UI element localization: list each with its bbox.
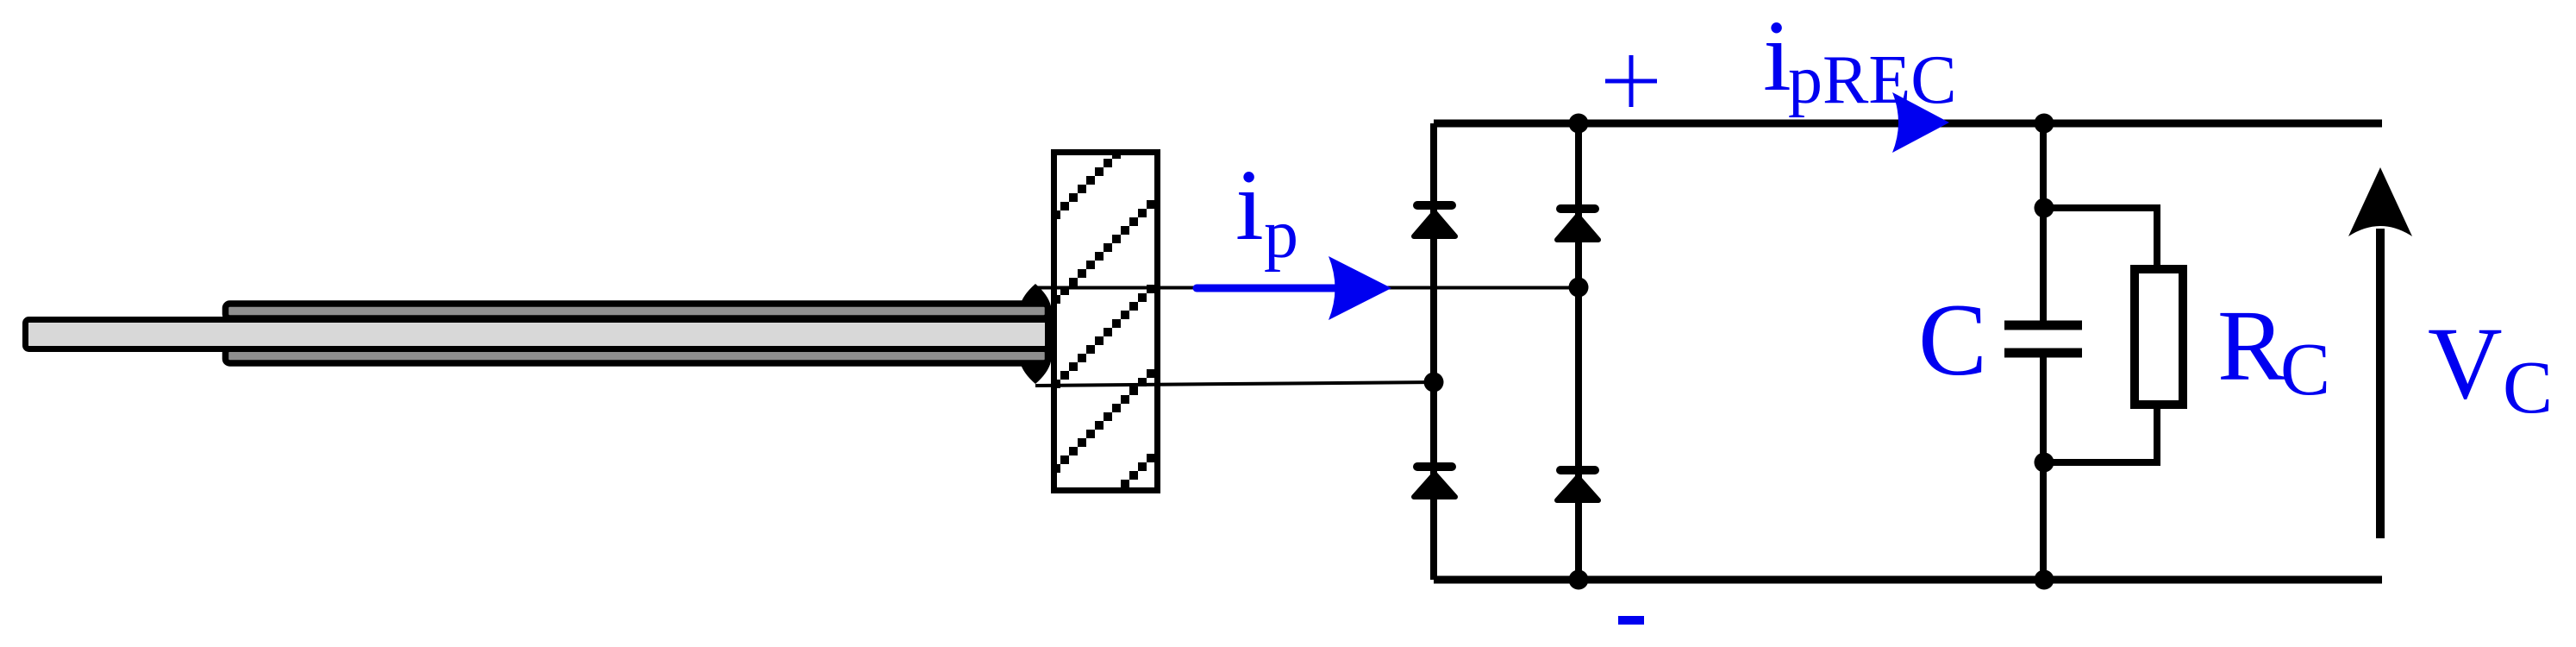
svg-text:C: C bbox=[2503, 345, 2553, 429]
svg-text:R: R bbox=[2217, 289, 2285, 402]
clamp block bbox=[1054, 153, 1158, 491]
VC arrow shaft bbox=[2376, 229, 2385, 538]
capacitor C bottom leg bbox=[2040, 357, 2047, 580]
svg-text:pREC: pREC bbox=[1788, 42, 1957, 118]
diode D4 bottom-right bbox=[1557, 468, 1598, 500]
svg-text:C: C bbox=[2280, 327, 2330, 411]
capacitor C bottom plate bbox=[2004, 349, 2082, 358]
node dot bridge left mid bbox=[1424, 373, 1444, 393]
wire bridge right branch bbox=[1575, 123, 1582, 580]
svg-text:p: p bbox=[1264, 197, 1298, 273]
node dot bottom-rail bridge bbox=[1569, 570, 1589, 590]
capacitor C top plate bbox=[2004, 321, 2082, 330]
node dot bottom-rail cap bbox=[2035, 570, 2054, 590]
svg-text:V: V bbox=[2428, 305, 2503, 420]
clamp block border bbox=[1054, 153, 1158, 491]
node dot bridge right mid bbox=[1569, 278, 1589, 298]
clamp pin (black pointed oval at beam root) bbox=[1020, 284, 1051, 384]
node dot top-rail bridge bbox=[1569, 114, 1589, 134]
ip arrowhead (blue) bbox=[1329, 256, 1391, 320]
wire top electrode bbox=[1035, 286, 1579, 290]
svg-text:i: i bbox=[1235, 148, 1264, 261]
diode D2 top-right bbox=[1557, 207, 1598, 240]
svg-text:i: i bbox=[1763, 0, 1791, 112]
piezo layer bottom bbox=[226, 349, 1048, 363]
node dot RC top bbox=[2035, 198, 2054, 218]
ipREC arrowhead (blue) bbox=[1892, 92, 1949, 153]
resistor RC body bbox=[2135, 269, 2183, 405]
clamp hatch bbox=[1052, 150, 1164, 497]
wire bridge left branch bbox=[1430, 123, 1437, 580]
diode D3 bottom-left bbox=[1414, 465, 1455, 497]
resistor RC branch top wire bbox=[2043, 208, 2157, 268]
wire bottom electrode bbox=[1035, 382, 1434, 386]
ip arrow shaft (blue) bbox=[1197, 285, 1345, 292]
substrate beam bbox=[26, 320, 1048, 349]
label minus bbox=[1618, 616, 1644, 625]
resistor RC branch bottom wire bbox=[2043, 405, 2157, 462]
VC arrowhead bbox=[2348, 167, 2412, 236]
node dot RC bottom bbox=[2035, 453, 2054, 473]
wire top rail bbox=[1434, 120, 2382, 128]
label plus bbox=[1605, 55, 1657, 107]
node dot top-rail cap bbox=[2035, 114, 2054, 134]
capacitor C top leg bbox=[2040, 123, 2047, 321]
diode D1 top-left bbox=[1414, 204, 1455, 236]
svg-text:C: C bbox=[1918, 282, 1987, 397]
piezo layer top bbox=[226, 304, 1048, 318]
wire bottom rail bbox=[1434, 576, 2382, 584]
